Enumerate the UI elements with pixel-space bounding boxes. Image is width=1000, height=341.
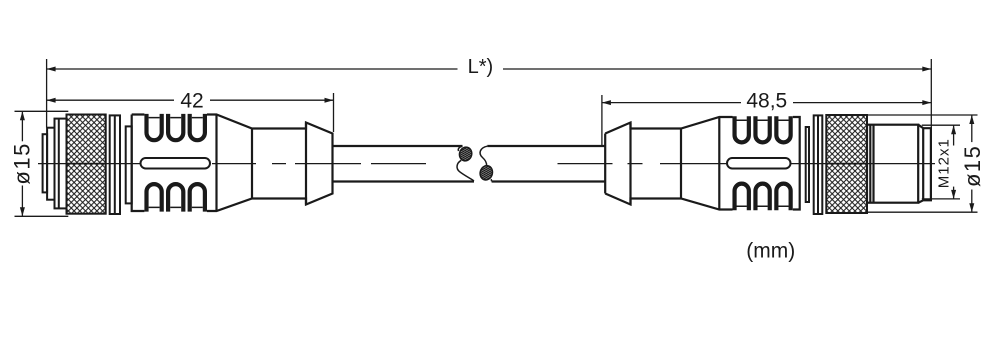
socket tip	[43, 134, 48, 192]
strain relief ribs left bottom	[147, 184, 162, 212]
svg-text:ø15: ø15	[10, 142, 35, 184]
extension lines M12x1	[922, 124, 960, 126]
extension lines dia15 left	[15, 110, 69, 112]
dimension line 48,5	[602, 102, 741, 104]
face plate A	[47, 128, 54, 200]
small ring left	[126, 126, 132, 203]
cable right segment	[487, 146, 605, 182]
arrow dia15 left top	[20, 111, 25, 120]
svg-text:ø15: ø15	[960, 145, 985, 187]
extension line 48,5 left	[601, 95, 603, 146]
thread barrel right	[867, 125, 931, 203]
knurled nut right	[826, 115, 867, 213]
slot left	[141, 158, 211, 169]
arrow dia15 right bottom	[969, 203, 974, 212]
svg-text:(mm): (mm)	[746, 240, 795, 263]
svg-text:L*): L*)	[468, 56, 494, 78]
extension line left (shared by L* and 42)	[46, 59, 48, 128]
break symbol right	[478, 146, 494, 181]
extension lines dia15 right	[867, 114, 978, 116]
dimension line dia15 left	[21, 111, 23, 141]
slot right	[727, 158, 791, 169]
face plate B	[55, 119, 67, 209]
dimension line M12x1	[953, 125, 955, 145]
strain relief ribs right bottom	[735, 184, 749, 211]
dimension line L*	[47, 68, 458, 70]
strain relief ribs right top	[735, 116, 791, 210]
strain relief ribs left top	[147, 114, 205, 212]
extension line 42 right	[333, 93, 335, 132]
dimension line 42	[47, 99, 174, 101]
arrow M12 bottom	[951, 190, 956, 199]
body left	[132, 115, 333, 212]
face plate B inner line	[58, 119, 60, 209]
arrow 48,5 left	[602, 100, 611, 105]
break symbol left	[457, 146, 474, 181]
groove floor lines right	[737, 120, 789, 206]
collar left	[110, 115, 120, 214]
arrow dia15 right top	[969, 115, 974, 124]
arrow 48,5 right	[922, 100, 931, 105]
arrow M12 top	[951, 125, 956, 134]
centerline	[38, 163, 935, 165]
arrow L* left	[47, 67, 56, 72]
bell / cone / cylinder / body right	[605, 117, 800, 210]
dimension line dia15 right	[971, 115, 973, 142]
arrow L* right	[922, 67, 931, 72]
svg-text:48,5: 48,5	[746, 90, 787, 113]
collar right	[814, 115, 823, 214]
arrow 42 left	[47, 98, 56, 103]
svg-text:M12x1: M12x1	[936, 138, 953, 188]
cable left segment	[334, 146, 475, 182]
arrow 42 right	[325, 98, 334, 103]
arrow dia15 left bottom	[20, 207, 25, 216]
male tip	[918, 125, 931, 203]
knurled nut left	[67, 115, 106, 214]
extension line right (shared by L* and 48,5)	[930, 59, 932, 128]
svg-text:42: 42	[180, 90, 203, 113]
ring A right	[806, 127, 809, 202]
groove floor lines left	[149, 118, 203, 208]
